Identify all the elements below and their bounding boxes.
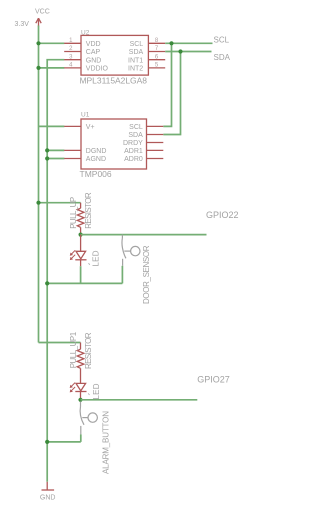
svg-text:DOOR_SENSOR: DOOR_SENSOR xyxy=(142,245,151,304)
junction GND/bus1 xyxy=(45,281,49,285)
svg-text:GPIO27: GPIO27 xyxy=(197,375,230,385)
svg-text:LED: LED xyxy=(92,383,101,399)
svg-text:U1: U1 xyxy=(81,111,90,118)
wire VCC rail to resistor R2 xyxy=(39,342,81,344)
svg-text:RESISTOR: RESISTOR xyxy=(84,332,93,369)
svg-text:CAP: CAP xyxy=(86,49,101,56)
svg-text:SCL: SCL xyxy=(129,124,143,131)
U1 pin AGND xyxy=(64,158,81,160)
U1 pin V+ xyxy=(64,125,81,127)
junction GND/DGND xyxy=(45,148,49,152)
svg-text:V+: V+ xyxy=(86,124,95,131)
svg-text:VDD: VDD xyxy=(86,41,101,48)
U2 pin 6 INT1 xyxy=(148,59,165,61)
resistor R2 PULL_UP1 xyxy=(77,343,84,384)
svg-text:INT2: INT2 xyxy=(128,66,143,73)
svg-text:TMP006: TMP006 xyxy=(80,169,112,179)
wire SDA vertical to U1 xyxy=(163,52,180,135)
wire VCC to U1 V+ xyxy=(39,125,65,127)
svg-text:MPL3115A2LGA8: MPL3115A2LGA8 xyxy=(80,76,148,86)
junction R1/LED1/GPIO22 xyxy=(79,233,83,237)
svg-text:SCL: SCL xyxy=(214,36,230,45)
wire GND rail to U1 DGND xyxy=(47,149,64,151)
wire VCC to R1 xyxy=(39,202,81,204)
U2 pin 8 SCL xyxy=(148,42,165,44)
svg-text:GND: GND xyxy=(40,495,56,502)
svg-text:U2: U2 xyxy=(81,29,90,36)
IC U1 TMP006 box xyxy=(81,119,147,169)
U1 pin SCL xyxy=(147,125,164,127)
junction GND/bus2 xyxy=(45,440,49,444)
svg-text:SDA: SDA xyxy=(128,132,143,139)
svg-text:DGND: DGND xyxy=(86,148,107,155)
VCC symbol xyxy=(36,18,41,26)
wire GND rail to U1 AGND xyxy=(47,158,64,160)
svg-text:ADR1: ADR1 xyxy=(124,148,143,155)
svg-text:RESISTOR: RESISTOR xyxy=(84,192,93,229)
svg-text:LED: LED xyxy=(92,250,101,266)
LED2 designator tick xyxy=(88,393,89,395)
U1 pin ADR0 xyxy=(147,158,164,160)
wire LED1 to ground bus xyxy=(80,266,82,283)
LED LED2 xyxy=(75,383,86,399)
wire VCC to U2 VDD xyxy=(39,42,65,44)
U1 pin SDA xyxy=(147,134,164,136)
svg-text:PULL_UP: PULL_UP xyxy=(69,197,78,229)
wire SCL vertical to U1 xyxy=(163,43,171,126)
wire GPIO22 xyxy=(81,234,207,236)
wire VCC to U2 VDDIO xyxy=(39,67,65,69)
junction GND/AGND xyxy=(45,156,49,160)
resistor R1 PULL_UP xyxy=(77,203,84,235)
junction LED2/GPIO27/button xyxy=(78,398,82,402)
GND rail wire xyxy=(47,60,64,482)
U1 pin DRDY xyxy=(147,142,164,144)
svg-text:DRDY: DRDY xyxy=(123,140,143,147)
LED1 emission arrows xyxy=(70,250,75,260)
svg-text:ALARM_BUTTON: ALARM_BUTTON xyxy=(102,411,111,474)
wire SCL bus xyxy=(165,42,212,44)
LED1 designator tick xyxy=(89,263,90,265)
LED2 emission arrows xyxy=(70,383,75,393)
switch DOOR_SENSOR xyxy=(122,235,140,266)
wire GPIO27 xyxy=(81,399,198,401)
ground symbol xyxy=(42,482,55,490)
U2 pin 7 SDA xyxy=(148,51,165,53)
wire VCC rail xyxy=(38,26,40,343)
svg-text:AGND: AGND xyxy=(86,156,106,163)
junction VCC/VDDIO xyxy=(36,66,40,70)
svg-text:SDA: SDA xyxy=(129,49,144,56)
U1 pin DGND xyxy=(64,149,81,151)
svg-text:INT1: INT1 xyxy=(128,57,143,64)
svg-text:VCC: VCC xyxy=(35,8,50,15)
svg-text:3.3V: 3.3V xyxy=(15,21,30,28)
wire ground bus 2 xyxy=(47,441,81,443)
U2 pin 1 VDD xyxy=(64,42,81,44)
wire ground bus 1 xyxy=(47,282,122,284)
junction SCL xyxy=(169,41,173,45)
switch ALARM_BUTTON xyxy=(80,402,97,435)
svg-text:SCL: SCL xyxy=(130,41,144,48)
junction VCC/R1 xyxy=(36,201,40,205)
junction SDA xyxy=(178,49,182,53)
IC U2 MPL3115A2 box xyxy=(81,35,148,75)
U1 pin ADR1 xyxy=(147,149,164,151)
svg-text:GPIO22: GPIO22 xyxy=(206,210,239,220)
wire SDA bus xyxy=(165,51,211,53)
svg-text:SDA: SDA xyxy=(214,53,231,62)
svg-text:ADR0: ADR0 xyxy=(124,156,143,163)
wire door sensor to ground bus xyxy=(121,266,123,284)
svg-text:PULL_UP1: PULL_UP1 xyxy=(69,331,78,368)
U2 pin 5 INT2 xyxy=(148,67,165,69)
U2 pin 4 VDDIO xyxy=(64,67,81,69)
LED LED1 xyxy=(75,235,86,267)
svg-text:GND: GND xyxy=(86,57,102,64)
wire alarm button to ground bus xyxy=(80,434,82,442)
U2 pin 2 CAP xyxy=(64,51,81,53)
U2 pin 3 GND xyxy=(64,59,81,61)
junction VCC/VDD xyxy=(36,41,40,45)
svg-text:VDDIO: VDDIO xyxy=(86,66,109,73)
